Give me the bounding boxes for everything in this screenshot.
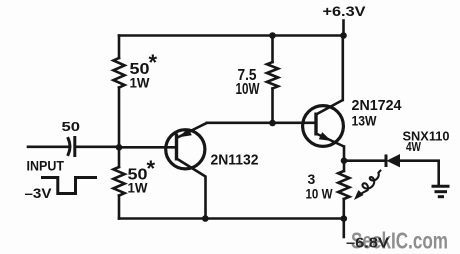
wire +6.3V lead	[342, 21, 345, 36]
wire diode to ground corner	[400, 161, 439, 186]
wire base lead Q1	[119, 146, 177, 149]
wire middle vertical below R3	[271, 89, 274, 124]
node R3 bottom / Q2 base line	[269, 120, 276, 127]
svg-text:4W: 4W	[406, 139, 422, 154]
svg-text:10 W: 10 W	[306, 186, 334, 202]
svg-text:*: *	[149, 50, 158, 75]
wire left vertical lower segment	[118, 147, 121, 167]
wire Q2 emitter vertical	[343, 147, 346, 161]
wire Q2 collector vertical	[341, 36, 344, 101]
svg-text:1W: 1W	[130, 75, 151, 91]
node bottom rail output	[341, 215, 348, 222]
resistor R4 3 ohm 10W	[338, 171, 349, 199]
wire output stub below bottom rail	[342, 219, 345, 237]
wire left vertical middle segment	[118, 88, 121, 148]
wire R4 to bottom rail	[342, 199, 345, 219]
resistor R3 7.5 ohm 10W	[267, 62, 278, 89]
wire node to diode	[344, 159, 386, 162]
svg-text:2N1724: 2N1724	[352, 97, 403, 114]
svg-text:INPUT: INPUT	[27, 159, 65, 174]
wire emitter node down to R4	[343, 161, 346, 171]
transistor Q2 2N1724 NPN	[303, 100, 344, 147]
wire middle vertical to R3	[271, 36, 274, 63]
wire bottom rail	[119, 217, 344, 220]
svg-text:–6.8V: –6.8V	[346, 235, 389, 252]
wire input line right of capacitor	[75, 146, 119, 149]
capacitor C1 50	[68, 138, 75, 156]
node Q2 emitter	[341, 157, 348, 164]
svg-text:1W: 1W	[128, 180, 149, 196]
svg-text:13W: 13W	[352, 113, 378, 129]
diode D1 SNX110	[386, 154, 400, 167]
transistor Q1 2N1132 PNP	[166, 123, 207, 219]
input pulse waveform	[43, 178, 96, 194]
svg-text:10W: 10W	[236, 81, 261, 98]
wire Q1 emitter to Q2 base	[207, 122, 316, 125]
node +6.3V rail	[340, 32, 347, 39]
ground	[432, 186, 450, 196]
svg-text:*: *	[147, 156, 156, 181]
wire left vertical top segment	[118, 36, 121, 59]
wire input line left of capacitor	[28, 146, 68, 149]
resistor R1 50 ohm 1W	[113, 58, 124, 88]
svg-text:+6.3V: +6.3V	[323, 3, 367, 19]
wavy pointer arrow at R4	[354, 171, 381, 201]
svg-text:50: 50	[62, 119, 81, 134]
resistor R2 50 ohm 1W	[113, 167, 124, 196]
node R3 top rail	[269, 32, 276, 39]
wire left vertical bottom segment	[118, 196, 121, 219]
node input junction	[116, 144, 123, 151]
svg-text:–3V: –3V	[25, 185, 53, 201]
node Q1 collector / bottom rail	[202, 215, 209, 222]
wire top supply rail	[119, 34, 344, 37]
svg-text:2N1132: 2N1132	[211, 152, 259, 169]
